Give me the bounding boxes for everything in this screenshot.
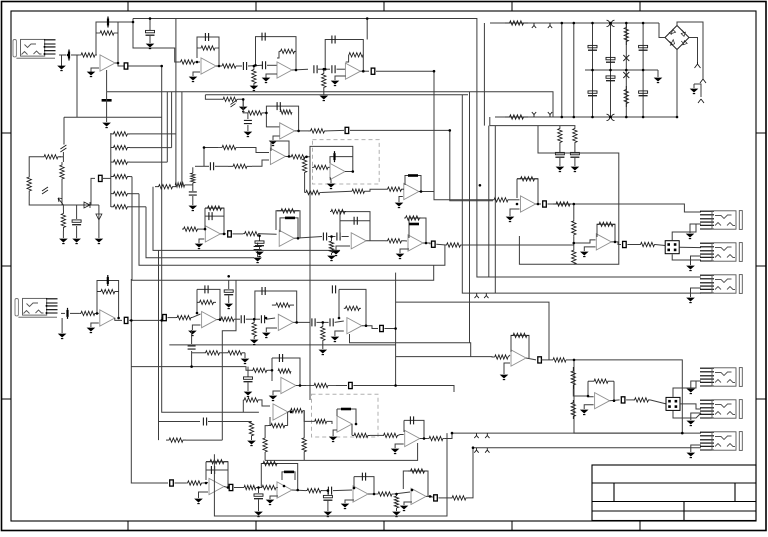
wire P2 to jack J7 (680, 404, 701, 409)
wire U5A noninverting to ground (510, 209, 520, 216)
junction 74 (573, 22, 576, 25)
wire (541, 359, 553, 361)
wire R6 to ground (253, 84, 255, 86)
wire top bus to U2B feedback (366, 19, 368, 40)
ground (267, 500, 274, 505)
resistor R113 (166, 438, 186, 442)
junction 91 (366, 17, 369, 20)
wire elbow B (146, 207, 254, 258)
capacitor C111 (639, 45, 648, 50)
junction 86 (609, 69, 612, 72)
wire bridge to AC terminal (689, 38, 698, 65)
capacitor C121 (606, 57, 615, 62)
junction 23 (420, 190, 423, 193)
series element X17 (432, 241, 436, 247)
wire R8 to ground (323, 88, 325, 95)
wire R107 down (396, 508, 398, 511)
ground (254, 258, 261, 263)
wire J2 to ground (690, 224, 701, 233)
wire C69 to ground (247, 383, 249, 392)
wire to ground (98, 205, 100, 238)
op-amp U12B (337, 416, 352, 432)
ground (501, 375, 508, 380)
wire U7A output (366, 240, 385, 242)
junction 27 (297, 237, 300, 240)
wire bus v4 (175, 19, 177, 187)
wire X12 to R92 (175, 482, 187, 484)
junction 25 (223, 233, 226, 236)
wire R7 to input (277, 51, 279, 58)
junction 59 (227, 486, 230, 489)
wire (403, 188, 404, 190)
capacitor C31 (337, 233, 340, 241)
ground (147, 44, 154, 49)
junction 33 (573, 242, 576, 245)
wire bottom loop (214, 433, 447, 516)
ground (263, 78, 270, 83)
capacitor C54 (241, 315, 244, 323)
wire to C3 (149, 19, 151, 31)
wire R4 stub (196, 48, 198, 58)
resistor R92 (186, 481, 203, 485)
wire (328, 236, 336, 238)
wire inner loop (205, 215, 224, 217)
capacitor C41 (570, 152, 579, 157)
capacitor C28 (285, 217, 295, 220)
junction 20 (288, 155, 291, 158)
capacitor C63 (410, 416, 413, 424)
resistor R41 (247, 111, 263, 115)
op-amp U5A (521, 196, 536, 212)
wire U4B feedback loop (405, 176, 421, 192)
wire U6B feedback loop (280, 218, 298, 238)
capacitor C27 (209, 212, 212, 220)
wire U5A output (536, 203, 542, 205)
wire box branch (91, 178, 95, 205)
capacitor C7 (262, 33, 265, 41)
wire elbow C to R58 (139, 194, 445, 266)
op-amp U2B (345, 63, 360, 79)
capacitor C22 (203, 418, 206, 426)
resistor R87B (315, 419, 327, 423)
wire U5B output (611, 242, 621, 245)
wire feedback left (204, 208, 206, 229)
series element X16 (621, 397, 625, 403)
resistor R83 (306, 383, 336, 387)
op-amp U3A (280, 123, 295, 139)
resistor R11 (505, 115, 528, 119)
resistor R102 (571, 367, 575, 389)
capacitor C30 (323, 233, 326, 241)
junction 6 (218, 65, 221, 68)
resistor R90 (427, 436, 445, 440)
resistor R23 (61, 210, 65, 231)
resistor R75 (252, 322, 256, 337)
wire X3 to ladder (103, 177, 111, 179)
wire (336, 385, 347, 387)
resistor R65 (572, 219, 576, 236)
op-amp U11A (281, 377, 296, 393)
wire R56 to U7B (404, 240, 407, 242)
junction 37 (130, 319, 133, 322)
junction 29 (425, 242, 428, 245)
junction 14 (449, 129, 452, 132)
junction 28 (330, 235, 333, 238)
wire U3B feedback loop (271, 141, 289, 156)
wire to U5A input (350, 130, 493, 200)
wire stub (253, 319, 255, 322)
wire R75 down (253, 337, 255, 339)
capacitor C58 (330, 318, 333, 326)
wire R112 to rail (264, 452, 266, 460)
wire stub (60, 156, 64, 158)
wire (439, 497, 451, 499)
wire jog up (242, 400, 244, 412)
tie point TP5 (475, 293, 479, 298)
ground (687, 298, 694, 303)
wire filter column 1 (592, 23, 594, 117)
wire U7B feedback loop (409, 218, 426, 243)
wire U5A feedback loop (517, 179, 538, 204)
wire R62 to U5A (509, 199, 520, 201)
wire cap stub (257, 243, 259, 245)
wire U7A noninverting to ground (336, 246, 350, 250)
wire R40 to ground (238, 99, 243, 106)
series element X1 (124, 63, 128, 69)
junction 65 (373, 493, 376, 496)
wire down to level network (106, 92, 108, 118)
resistor R94 (244, 485, 256, 489)
junction 89 (676, 116, 679, 119)
resistor R100 (450, 496, 468, 500)
wire row2 to v3 (130, 147, 172, 149)
capacitor C35 (409, 223, 419, 226)
series element X4 (345, 127, 349, 133)
resistor R78 (344, 306, 361, 310)
wire U8A output (115, 318, 122, 320)
junction 19 (203, 146, 206, 149)
wire to R8 (323, 69, 325, 73)
junction 64 (353, 487, 356, 490)
wire C22 onward (208, 421, 252, 423)
capacitor C26 (408, 174, 418, 177)
capacitor C64 (211, 466, 214, 474)
resistor R6 (252, 69, 256, 84)
ground (270, 141, 277, 146)
wire vert (191, 330, 193, 344)
junction 42 (253, 318, 256, 321)
ground (263, 333, 270, 338)
wire C6 to U2A (267, 64, 277, 66)
capacitor C6 (262, 61, 265, 69)
wire J8 to ground (691, 445, 701, 452)
junction 81 (591, 116, 594, 119)
wire 0V rail (585, 69, 658, 71)
wire R37 to U3B (252, 160, 269, 166)
wire U1A to mid bus (106, 70, 108, 92)
wire U2B noninverting to ground (335, 76, 346, 80)
resistor R50 (385, 187, 404, 191)
junction 79 (561, 116, 564, 119)
resistor R1 (79, 53, 97, 57)
junction 39 (196, 312, 199, 315)
ground (88, 72, 95, 77)
ground (96, 239, 103, 244)
wire U1B output (216, 65, 222, 67)
resistor R112 (263, 438, 267, 452)
junction 67 (411, 489, 414, 492)
output jack J8 (700, 432, 742, 451)
ground (557, 167, 564, 172)
wire R38 to U3B (240, 148, 269, 153)
wire top bus stub (132, 19, 134, 23)
resistor R110 (262, 485, 276, 489)
wire U2B output (360, 70, 369, 72)
ground (245, 392, 252, 397)
wire mixer feed (396, 302, 549, 360)
junction 5 (196, 61, 199, 64)
junction 9 (295, 69, 298, 72)
AC terminal T2 (700, 79, 706, 83)
wire C1 to R1 (71, 54, 79, 56)
wire to R38 (204, 147, 218, 149)
capacitor C32 (354, 217, 357, 225)
wire stub (258, 488, 260, 494)
resistor R72 (176, 315, 192, 319)
wire R40 to R41 (243, 99, 247, 113)
ground (393, 512, 400, 517)
wire row3 to v2 (130, 161, 167, 163)
resistor R101 (553, 358, 566, 362)
op-amp U3B (270, 148, 285, 164)
wire to C33 (195, 165, 209, 167)
resistor R35 (191, 173, 195, 183)
wire C41 to ground (574, 158, 576, 166)
wire to R49 (304, 174, 306, 193)
title block (592, 465, 756, 521)
wire R61 to C41 (574, 143, 576, 152)
capacitor C23 (244, 120, 252, 123)
wire U4B noninverting to ground (399, 197, 403, 203)
wire bus to H row (131, 279, 168, 483)
wire node to R23 (62, 205, 64, 210)
capacitor C53 (224, 290, 233, 295)
junction 66 (395, 493, 398, 496)
op-amp U4A (330, 163, 345, 179)
wire bus to F1 input (131, 367, 251, 371)
wire U2A output (292, 68, 308, 71)
resistor R76 (272, 303, 294, 307)
wire (303, 411, 315, 422)
op-amp U15A (353, 486, 368, 502)
wire input tap down (76, 55, 78, 117)
junction 75 (591, 22, 594, 25)
series element X8 (124, 317, 128, 323)
diode D4 (96, 214, 102, 220)
wire U13A output (420, 438, 427, 440)
resistor R54 (329, 241, 333, 253)
wire zener column (625, 23, 627, 117)
connector symbol K2 (607, 114, 615, 120)
op-amp U17A (511, 350, 526, 366)
wire C29 to ground (259, 247, 261, 252)
wire feedback left (271, 358, 273, 381)
capacitor C101 (588, 45, 597, 50)
wire feedback left (403, 420, 405, 432)
capacitor C59 (332, 285, 335, 293)
resistor R61 (573, 128, 577, 143)
wire filter column 3 (610, 23, 612, 117)
resistor R31 (111, 145, 130, 149)
ground (581, 410, 588, 415)
capacitor C2 (107, 17, 109, 28)
wire U5A to jack J2 (573, 204, 701, 212)
resistor R9 (349, 53, 364, 57)
wire U1A to U1B input (118, 22, 179, 62)
resistor R80 (225, 351, 245, 355)
junction 15 (479, 184, 482, 187)
resistor R46 (290, 155, 307, 159)
wire U14A feedback loop (206, 462, 228, 487)
resistor R109 (511, 333, 529, 337)
wire X6 to R64 (548, 203, 572, 205)
wire C50 to R70 (70, 312, 80, 314)
op-amp U7B (408, 235, 423, 251)
wire R68 to P1 (655, 245, 665, 246)
resistor R57 (404, 216, 421, 220)
ground (245, 132, 252, 137)
capacitor C55 (261, 315, 264, 323)
wire bus to jack J4 ring (462, 95, 701, 293)
wire U8A feedback loop (97, 281, 119, 319)
capacitor C51 (107, 275, 109, 286)
wire divider from U5A output (573, 204, 575, 219)
ground (88, 328, 95, 333)
wire G3 out bus to jack J8 (445, 433, 701, 438)
wire U2A noninverting to ground (266, 74, 277, 78)
tie point TP9 (474, 448, 478, 453)
wire down (327, 501, 329, 511)
wire P1 to jack J3 (679, 246, 701, 248)
wire elbow A (153, 187, 340, 251)
junction 30 (516, 203, 519, 206)
wire feedback left (353, 477, 355, 488)
resistor R35 (111, 205, 130, 209)
wire X11 onward (353, 386, 454, 393)
wire feedback left (587, 381, 589, 396)
wire branch (203, 148, 205, 167)
resistor R32 (111, 160, 130, 164)
connector symbol K1 (607, 20, 615, 26)
wire U1A feedback loop (96, 22, 118, 63)
wire (398, 434, 400, 437)
wire long vertical to F1 output (395, 273, 397, 386)
resistor R59 (277, 209, 299, 213)
tie point TP8 (485, 433, 489, 438)
wire R41 to U3A (263, 113, 280, 127)
junction 58 (205, 482, 208, 485)
resistor R22 (60, 162, 64, 182)
junction 69 (573, 359, 576, 362)
wire chassis ground stub (693, 84, 695, 88)
wire feedback left (269, 417, 271, 426)
junction 44 (295, 321, 298, 324)
junction 7 (253, 65, 256, 68)
wire bus v2 (166, 92, 168, 162)
wire J1 sleeve to ground (61, 55, 63, 66)
op-amp U10A (347, 318, 362, 334)
wire U14B noninverting to ground (270, 496, 278, 499)
wire U12A output (288, 411, 291, 412)
junction 88 (642, 69, 645, 72)
wire to C22 (159, 421, 201, 423)
resistor R105 (633, 398, 650, 402)
wire to U16 inverting (573, 389, 593, 397)
op-amp U9A (202, 312, 217, 328)
junction 84 (642, 116, 645, 119)
wire U2A feedback loop (256, 37, 297, 70)
resistor R64 (553, 202, 573, 206)
capacitor C56 (262, 287, 265, 295)
diode D1 (623, 55, 629, 61)
resistor R20 (41, 155, 61, 159)
capacitor C1 (68, 50, 70, 61)
tie point TP4 (548, 112, 552, 117)
resistor R52 (205, 206, 224, 210)
wire R43 to X4 (327, 129, 344, 132)
resistor R49B (352, 189, 365, 193)
wire to R112 (265, 426, 268, 438)
wire C60 down (191, 351, 193, 367)
output connector P1 (665, 241, 679, 254)
capacitor C61 (279, 354, 282, 362)
wire R98 to U15B (394, 492, 410, 494)
wire X9 to R72 (168, 317, 177, 319)
junction 1 (67, 54, 70, 57)
wire J5 to C50 (61, 312, 65, 314)
wire inner loop (340, 220, 370, 222)
wire U9A feedback loop (197, 289, 220, 319)
op-amp U2A (277, 62, 292, 78)
wire node across (63, 204, 99, 206)
wire U16A noninverting to ground (584, 405, 593, 409)
wire V+ feed (483, 23, 485, 126)
wire stub (303, 411, 305, 438)
capacitor C21 (254, 246, 262, 249)
wire X7 to R68 (627, 244, 640, 246)
wire vertical bus v7 (494, 126, 496, 294)
resistor R37 (228, 164, 252, 168)
resistor R12 (624, 24, 628, 45)
op-amp U7A (351, 233, 366, 249)
series element X15 (538, 357, 542, 363)
wire feedback right (287, 412, 289, 426)
wire P2 to jack J6 (673, 381, 701, 397)
wire to X9 (129, 318, 162, 321)
wire U1B noninverting to ground (193, 72, 200, 76)
resistor R60 (558, 128, 562, 143)
ground (320, 96, 327, 101)
trimmer marks (231, 101, 236, 107)
wire row1 to v4 (130, 133, 176, 135)
ground (189, 331, 196, 336)
wire V- feed (490, 117, 575, 128)
resistor R49 (305, 190, 322, 194)
capacitor C4 (205, 33, 208, 41)
wire R80 to ground (244, 353, 246, 358)
wire U17A feedback loop (511, 335, 529, 358)
ground (687, 453, 694, 458)
